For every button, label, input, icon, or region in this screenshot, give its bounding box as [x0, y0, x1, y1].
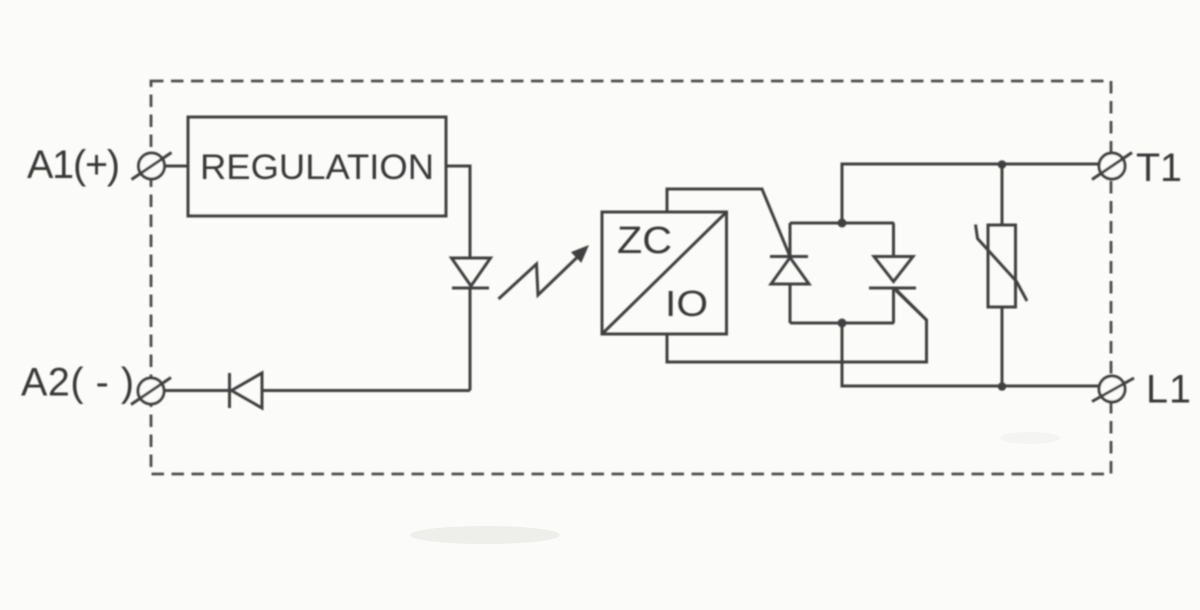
svg-text:IO: IO [665, 283, 708, 324]
svg-text:REGULATION: REGULATION [200, 147, 434, 187]
svg-text:L1: L1 [1146, 368, 1191, 412]
svg-text:A1(+): A1(+) [27, 143, 120, 187]
svg-text:T1: T1 [1136, 146, 1182, 190]
svg-text:ZC: ZC [617, 220, 672, 262]
svg-text:A2( - ): A2( - ) [21, 361, 134, 405]
